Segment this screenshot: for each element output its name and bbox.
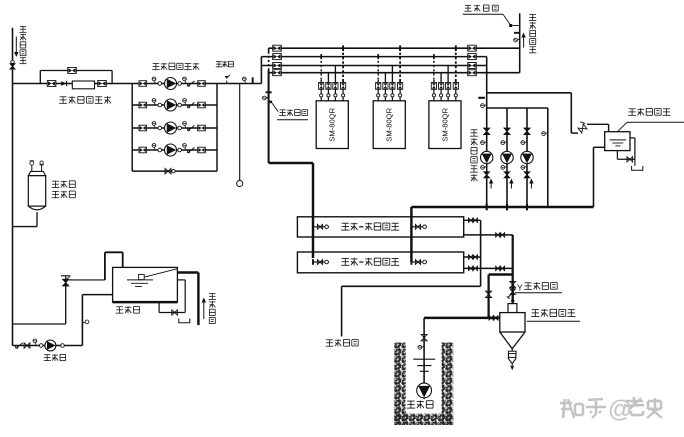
junction tick manifold — [486, 204, 488, 211]
junction tick bus1/riser4 #3 — [455, 45, 457, 51]
gauge cooling 3b — [521, 166, 527, 170]
wire: HX1 seawater out stub — [464, 219, 481, 221]
wire: make-up pump run — [13, 345, 83, 347]
valve V-byp on bypass — [68, 68, 77, 74]
valve V2a — [139, 102, 147, 108]
valve bus3 left — [273, 63, 282, 69]
glycol drain spout — [632, 159, 643, 170]
wire: header bus2 (return) — [261, 56, 486, 58]
wire: cooling riser3 — [526, 108, 528, 207]
wire: chilled return riser — [410, 207, 412, 262]
flex chiller3 riser1 — [432, 89, 435, 101]
wire: safety discharge drop — [239, 84, 241, 181]
flex chiller1 riser1 — [320, 89, 323, 101]
pump cooling-water CP1 — [481, 151, 493, 163]
make-up water tank — [113, 267, 178, 302]
valve bus1 right — [468, 45, 477, 51]
valve bus4 left — [273, 70, 282, 76]
valve pair HX2 in near — [469, 266, 478, 270]
valve pair HX1 out — [469, 218, 478, 222]
svg-text:SM-80QR: SM-80QR — [328, 107, 337, 141]
wire: cooling return outer header — [487, 92, 572, 94]
valve chiller3 riser1 — [431, 83, 436, 90]
chiller unit SM-80QR #2 — [373, 101, 405, 149]
wire: header bus3 — [261, 65, 486, 67]
gauge make-up — [33, 339, 37, 346]
gauge PI3a — [152, 122, 156, 129]
wire: seawater pump discharge run — [424, 317, 500, 319]
flex chiller2 riser2 — [384, 89, 387, 101]
wire: header bus1 (supply) — [269, 47, 520, 49]
safety valve SV1 — [225, 75, 231, 84]
HX1 left tap — [312, 224, 329, 230]
flow arrow up to HX — [511, 296, 515, 301]
wire: expansion tank drop — [13, 212, 38, 226]
valve V3b — [198, 125, 206, 131]
label: hai-shui - shui-huan-re-qi #1 — [341, 223, 399, 231]
flex chiller3 riser4 — [454, 89, 457, 101]
wire: manifold right header — [216, 84, 218, 172]
gauge cooling 1b — [481, 166, 487, 170]
gauge PI4a — [152, 144, 156, 151]
valve V-man on bottom bypass — [165, 168, 175, 174]
valve cooling pump 2 inlet — [504, 128, 510, 134]
wire: tank drain loop — [159, 280, 185, 313]
flex joint 4a — [158, 148, 162, 152]
flow switch FS2 — [503, 14, 520, 42]
wire: AC return main riser — [12, 28, 14, 346]
wire: pump suction header — [13, 83, 262, 85]
label: dian-zi-shui-chu-li-yi — [59, 96, 111, 103]
wire: HX1 seawater in stub — [464, 234, 513, 236]
wire: sand remover bypass elbow — [489, 275, 513, 318]
valve pair HX1 in — [496, 233, 505, 237]
wire: treatment bypass loop — [40, 71, 112, 84]
valve V4a — [139, 147, 147, 153]
valve chiller2 riser1 — [376, 83, 381, 90]
label: luo-xuan-chu-sha-ji (sand remover) — [527, 309, 580, 321]
wire: cooling 4th column — [547, 108, 549, 207]
valve well riser — [421, 334, 427, 340]
gauge cooling 2a — [501, 141, 507, 145]
float ball + arm — [139, 269, 177, 280]
label: shui-liu-kai-guan (flow switch) — [277, 109, 308, 119]
wire: HX2 seawater in stub — [464, 267, 513, 269]
wire: chiller3 riser4 (dashed to bus1) — [455, 48, 457, 82]
pump chilled-water P4 — [165, 144, 177, 156]
gauge PI2a — [152, 99, 156, 106]
gauge cooling 3a — [521, 141, 527, 145]
label: bu-shui-xiang (make-up tank) — [116, 306, 140, 313]
chiller unit SM-80QR #1 — [316, 101, 348, 149]
wire: right hookup bus2 riser — [486, 57, 488, 207]
wire: header bus4 — [269, 72, 520, 74]
valve chiller3 riser4 — [453, 83, 458, 90]
wire: chiller1 riser4 (dashed to bus1) — [342, 48, 344, 82]
wire: city water pipe — [177, 273, 198, 326]
flex chiller3 riser3 — [447, 89, 450, 101]
flow arrow up pump 2 — [509, 179, 513, 189]
gauge well riser — [418, 345, 424, 349]
flex chiller1 riser3 — [334, 89, 337, 101]
valve chiller3 riser3 — [446, 83, 451, 90]
check valve CK3 — [187, 125, 194, 130]
valve cooling pump 3 outlet — [524, 172, 530, 178]
junction tick bus2/riser1 #1 — [320, 54, 322, 59]
gauge cooling 2b — [501, 166, 507, 170]
flex chiller1 riser2 — [327, 89, 330, 101]
wire: cooling supply bottom manifold — [411, 206, 593, 208]
valve cooling pump 2 outlet — [504, 172, 510, 178]
wire: submersible pump riser — [423, 318, 425, 383]
valve V4b — [198, 147, 206, 153]
flow arrow up pump 3 — [529, 179, 533, 189]
label: leng-mei-shui-xun-huan-beng (chilled water pumps) — [152, 63, 199, 70]
junction tick bus2/riser1 #3 — [433, 54, 435, 59]
wire: chiller2 riser4 (dashed to bus1) — [399, 48, 401, 82]
wire: chiller1 riser1 (dashed to bus2) — [320, 57, 322, 83]
gauge cooling 1a — [481, 141, 487, 145]
gauge PI4b — [183, 144, 187, 151]
wire: float valve feed — [69, 279, 105, 281]
label: vertical jie-zi-lai-shui (city water) — [209, 293, 216, 323]
wire: HX2 seawater out stub — [464, 256, 481, 258]
valve chiller3 riser2 — [439, 83, 444, 90]
wire: chiller2 riser1 (dashed to bus2) — [377, 57, 379, 83]
wire: pump branch 4 — [132, 149, 217, 151]
valve above Y-strainer — [510, 282, 516, 288]
valve chiller2 riser2 — [383, 83, 388, 90]
wire: glycol feed elbow — [571, 124, 608, 133]
label: luo-di-shi (floor type) — [52, 181, 76, 188]
flex joint 3b — [178, 126, 182, 130]
glycol make-up tank — [605, 132, 630, 151]
wire: pump branch 2 — [132, 104, 217, 106]
svg-text:SM-80QR: SM-80QR — [440, 107, 449, 141]
flow switch FS1 — [263, 91, 279, 111]
valve V1 before treatment — [47, 81, 56, 87]
valve cooling pump 3 inlet — [524, 128, 530, 134]
flow arrow down (return) — [14, 37, 18, 58]
label: jie-ru-hai-zhong (to sea) — [326, 339, 359, 346]
wire: chiller3 riser1 (dashed to bus2) — [433, 57, 435, 83]
flex chiller2 riser4 — [399, 89, 402, 101]
valve bus2 right — [468, 54, 477, 60]
well wall stipple — [394, 343, 453, 426]
wire: chiller2 riser3 — [391, 66, 393, 83]
valve V3a — [139, 125, 147, 131]
sight ball — [237, 180, 243, 186]
flow arrow up pump 1 — [489, 179, 493, 189]
label: bu-shui-beng (make-up pump) — [44, 354, 66, 361]
wire: left hookup bus1-bus4 (sensor line upper) — [268, 48, 270, 163]
wire: chiller1 riser3 — [334, 66, 336, 83]
valve chiller2 riser3 — [390, 83, 395, 90]
valve V2 after treatment — [98, 81, 107, 87]
wire: chiller3 riser2 — [440, 73, 442, 83]
wire: chiller1 riser2 — [327, 73, 329, 83]
gauge PI1b — [183, 77, 187, 84]
HX1 right tap — [410, 224, 427, 230]
label: yi-er-chun-shui-xiang (glycol tank) — [617, 108, 684, 131]
flow arrow up (supply) — [521, 33, 525, 48]
valve V2b — [198, 102, 206, 108]
wire: fill over-top loop — [105, 252, 123, 280]
chiller unit SM-80QR #3 — [429, 101, 461, 149]
wire: cooling riser2 — [506, 108, 508, 207]
label: vertical text jie-kong-tiao-gong-shui (AC supply) — [529, 15, 536, 53]
wire: manifold bottom bypass — [132, 170, 217, 172]
wire: seawater discharge drop — [480, 220, 482, 286]
wire: pump branch 3 — [132, 127, 217, 129]
junction tick manifold — [506, 204, 508, 211]
valve bus1 left — [273, 45, 282, 51]
label: shui-liu-kai-guan top — [463, 5, 503, 15]
valve V1a — [139, 81, 147, 87]
wire: glycol tank outlet — [594, 147, 605, 207]
valve chiller1 riser1 — [319, 83, 324, 90]
valve V1b — [198, 81, 206, 87]
valve glycol angle — [578, 122, 587, 133]
check valve CK1 — [61, 81, 66, 86]
label: an-quan-fa (safety valve) — [216, 61, 234, 67]
flex make-up a — [39, 344, 43, 348]
wire: outer header drop — [570, 93, 572, 133]
label: hai-shui - shui-huan-re-qi #2 — [341, 258, 399, 266]
check valve make-up — [16, 343, 23, 348]
flex chiller2 riser1 — [377, 89, 380, 101]
junction tick bus1/riser4 #1 — [342, 45, 344, 51]
wire: tank suction — [82, 295, 112, 346]
valve chiller1 riser3 — [333, 83, 338, 90]
label: qian-shui-beng (submersible pump) — [406, 399, 438, 409]
valve cooling pump 1 inlet — [484, 128, 490, 134]
watermark zhihu @laoshi — [560, 396, 662, 423]
check valve CK1 — [187, 81, 194, 86]
gauge PI col4 — [542, 132, 548, 136]
valve cooling pump 1 outlet — [484, 172, 490, 178]
flex joint 2b — [178, 103, 182, 107]
valve bus3 right — [468, 63, 477, 69]
flex joint 2a — [158, 103, 162, 107]
spiral sand remover body — [500, 304, 525, 349]
wire: fill branch — [13, 286, 66, 324]
svg-text:SM-80QR: SM-80QR — [385, 107, 394, 141]
pump chilled-water P2 — [165, 99, 177, 111]
flex joint 1b — [178, 82, 182, 86]
label: vertical leng-que-shui-xun-huan-beng (cooling pumps) — [470, 130, 478, 182]
tick on riser between headers — [478, 97, 485, 99]
valve pair HX2 out — [469, 255, 478, 259]
valve tank drain — [172, 310, 178, 315]
gauge suction — [82, 320, 89, 324]
flex chiller3 riser2 — [440, 89, 443, 101]
valve bus4 right — [468, 70, 477, 76]
Y-strainer — [507, 289, 516, 299]
valve bus2 left — [273, 54, 282, 60]
electronic water treatment unit — [72, 81, 94, 89]
tank drain spout — [179, 318, 190, 322]
heat exchanger HX2 (seawater-water) — [297, 252, 463, 273]
flex chiller2 riser3 — [391, 89, 394, 101]
flex chiller1 riser4 — [342, 89, 345, 101]
svg-text:Y: Y — [517, 282, 523, 292]
pump cooling-water CP3 — [521, 151, 533, 163]
junction tick bus1/riser4 #2 — [399, 45, 401, 51]
junction tick manifold — [526, 204, 528, 211]
valve chiller1 riser2 — [326, 83, 331, 90]
wire: discharge to sea — [341, 286, 343, 336]
valve pair pump discharge — [489, 316, 498, 320]
gauge PI3b — [183, 122, 187, 129]
label: Y-xing-guo-lv-qi (Y strainer) — [515, 282, 562, 293]
valve make-up a — [24, 343, 30, 348]
check valve CK4 — [187, 147, 194, 152]
wire: right hookup bus1-bus4 supply riser — [519, 13, 521, 72]
tick at header end — [252, 77, 254, 83]
check valve CK2 — [187, 102, 194, 107]
gauge PI riser — [481, 104, 487, 108]
wire: chiller2 riser2 — [384, 73, 386, 83]
well water level mark — [413, 359, 435, 371]
pump chilled-water P1 — [165, 78, 177, 90]
wire: cooling return inner header — [487, 107, 548, 109]
wire: left hookup bus2-main — [260, 57, 262, 84]
gauge PI2b — [183, 99, 187, 106]
pump chilled-water P3 — [165, 122, 177, 134]
wire: chilled supply drop — [269, 163, 313, 258]
valve V-ret on return riser — [10, 60, 15, 69]
pump cooling-water CP2 — [501, 151, 513, 163]
flex joint 1a — [158, 82, 162, 86]
label: vertical text jie-kong-tiao-hui-shui (AC return) — [19, 26, 26, 63]
wire: seawater discharge run — [342, 285, 481, 287]
HX2 right tap — [410, 259, 427, 265]
valve pair HX2 in far — [496, 266, 505, 270]
valve glycol drain — [627, 157, 633, 162]
pump submersible QP — [417, 383, 432, 401]
float valve FV — [61, 276, 70, 286]
heat exchanger HX1 (seawater-water) — [297, 217, 463, 237]
wire: seawater supply riser — [512, 235, 514, 304]
wire: chiller3 riser3 — [447, 66, 449, 83]
flex make-up b — [61, 344, 65, 348]
flow arrow up city water — [202, 298, 206, 320]
wire: manifold left header — [131, 84, 133, 172]
tank level mark — [127, 280, 153, 287]
label: peng-zhang-xiang (expansion tank) — [52, 191, 76, 198]
glycol tank level mark — [610, 140, 626, 146]
flex joint 4b — [178, 148, 182, 152]
valve bypass — [486, 291, 492, 297]
gauge PI1a — [152, 77, 156, 84]
wire: glycol drain loop — [617, 138, 635, 159]
flex joint 3a — [158, 126, 162, 130]
valve chiller2 riser4 — [398, 83, 403, 90]
expansion tank (floor type) — [28, 171, 45, 209]
HX2 left tap — [312, 259, 329, 265]
expansion tank top fittings — [30, 161, 44, 172]
junction tick bus2/riser1 #2 — [377, 54, 379, 59]
sand collector pot — [508, 349, 516, 370]
valve chiller1 riser4 — [341, 83, 346, 90]
gauge PI-h — [242, 77, 246, 84]
pump make-up BP — [45, 340, 56, 351]
